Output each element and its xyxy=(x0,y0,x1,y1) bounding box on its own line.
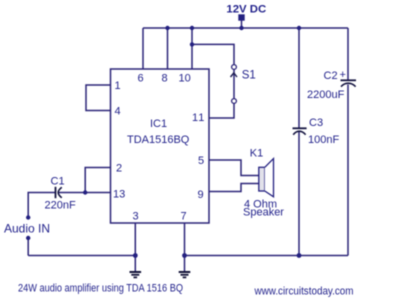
svg-text:2: 2 xyxy=(116,163,122,175)
svg-text:IC1: IC1 xyxy=(150,118,167,130)
svg-text:6: 6 xyxy=(138,73,144,85)
svg-text:220nF: 220nF xyxy=(45,200,76,212)
svg-text:10: 10 xyxy=(179,73,191,85)
svg-text:S1: S1 xyxy=(242,70,256,82)
svg-text:C3: C3 xyxy=(309,117,323,129)
svg-text:TDA1516BQ: TDA1516BQ xyxy=(127,134,190,146)
svg-text:Speaker: Speaker xyxy=(243,207,284,219)
svg-text:3: 3 xyxy=(133,211,139,223)
svg-text:C1: C1 xyxy=(51,176,65,188)
svg-text:5: 5 xyxy=(198,155,204,167)
svg-text:24W audio amplifier using TDA: 24W audio amplifier using TDA 1516 BQ xyxy=(18,283,183,295)
svg-text:2200uF: 2200uF xyxy=(307,89,345,101)
svg-text:www.circuitstoday.com: www.circuitstoday.com xyxy=(254,286,354,298)
svg-text:1: 1 xyxy=(115,80,121,92)
svg-text:Audio IN: Audio IN xyxy=(4,222,50,236)
svg-text:8: 8 xyxy=(162,73,168,85)
svg-text:100nF: 100nF xyxy=(308,134,339,146)
svg-text:+: + xyxy=(340,69,346,81)
svg-text:12V DC: 12V DC xyxy=(226,4,266,16)
svg-text:9: 9 xyxy=(198,189,204,201)
svg-text:13: 13 xyxy=(113,189,125,201)
svg-text:K1: K1 xyxy=(250,148,263,160)
svg-text:4: 4 xyxy=(115,106,121,118)
svg-text:7: 7 xyxy=(181,211,187,223)
svg-text:C2: C2 xyxy=(324,70,338,82)
svg-text:11: 11 xyxy=(192,112,205,124)
